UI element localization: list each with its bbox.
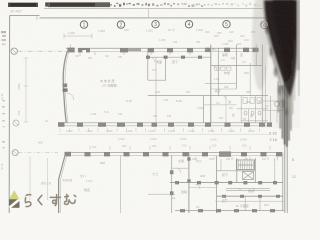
frame: top-left corner stub [36,15,38,20]
upper dim line [64,35,92,37]
top wall column blocks [67,48,258,53]
EV shaft with X [243,172,254,180]
upper plan curved left wall [63,52,67,123]
lower horizontal partition y170.8 [217,170,256,172]
interior vertical wall H [255,45,257,66]
logo text ra [25,194,76,206]
blob edge smudges [265,26,287,116]
lower faint shelf line [148,193,175,195]
blob fade streaks [278,40,294,146]
right wing horizontal 2 [262,110,285,112]
extra vertical x226 [225,96,227,123]
frame: left border vertical line [8,15,10,213]
room label marks upper plan [100,52,261,118]
blob right edge lighter column [296,0,300,70]
counter table lines [226,187,270,189]
lower dim ticks [90,146,270,150]
horizontal 1 blocks [175,181,277,184]
grid leader line row B [18,50,66,52]
door arc 2 [212,66,217,71]
extra partition y104.9 [204,104,237,106]
tick above corner [70,44,72,48]
left edge smudges [1,31,6,148]
lower interior vertical 2 [171,155,173,213]
logo house square [9,199,20,208]
wall a column blocks [146,56,202,59]
upper dim row texts [68,28,249,43]
left grid bubble row C [13,120,19,126]
lower interior vertical 4 [216,156,218,213]
corridor line [215,200,284,202]
frame: right border double line [284,40,286,213]
interior vertical wall M [255,96,257,123]
extension line x47 [47,158,49,200]
curved wall blocks [63,84,68,88]
interior vertical wall A [147,48,149,80]
left dim line lower [29,156,31,200]
lower right wall [282,152,284,211]
wall I parallel line [265,66,267,123]
interior horizontal wall f [236,108,268,110]
interior vertical wall G [249,63,251,96]
logo text ku [38,195,42,204]
logo text mu [65,195,69,198]
right wing horizontal 1 [262,100,285,102]
interior vertical wall B [155,57,157,123]
faint texts above bottom wall [90,111,123,116]
top speckle strip main part [48,2,110,7]
lower interior vertical 5 [220,159,222,171]
right wing partition vertical 1 [270,96,272,123]
door arc 5 [222,196,226,200]
interior horizontal wall d [205,83,236,85]
interior vertical wall J [203,96,205,123]
bottom edge wall line [175,210,284,212]
logo roof triangle [9,190,20,199]
lower interior horizontal 3 (with blocks) [217,195,284,197]
vertical 2 blocks [170,170,174,174]
tiny texts below lower top wall [192,158,267,161]
upper plan top wall lines [66,47,259,49]
upper dim extra texts [205,30,256,46]
lower interior vertical 3 [188,152,190,213]
blob inner dark core [269,0,295,84]
lower plan left wall [59,155,65,213]
grid bubble 6 ghost ring [260,21,267,28]
right wing partition vertical 2 [276,108,278,123]
grid bubble 1 [80,21,268,29]
bottom dim row of upper plan [66,129,255,133]
blob halo [252,0,268,90]
lower plan top wall lines [65,151,282,153]
door marks near curved wall [67,93,74,100]
below-wall tick marks [80,52,190,56]
interior vertical wall C [165,57,167,80]
blob grain texture [264,0,300,116]
partition y89 [211,88,237,90]
grid numbers [83,22,267,29]
between-plan dim texts [118,137,247,142]
interior vertical wall L [248,109,250,123]
stair treads hatch [238,161,253,169]
interior vertical wall F [235,45,237,90]
fold line under strip [44,8,263,10]
interior vertical wall I (right) [261,45,263,123]
blob core wedge [264,0,298,97]
lower interior vertical 6 (center) [236,158,238,183]
left margin tiny marks [0,83,21,170]
interior horizontal wall a [148,56,211,58]
top speckle strip gap mark [45,2,48,6]
bottom wall column blocks [58,122,272,127]
vertical 3 blocks [187,157,190,160]
extra text clusters upper mid [153,39,224,120]
faint interior marks below top wall [75,55,123,60]
upper plan bottom wall lines [58,122,271,124]
top strip fading scribbles [110,3,261,7]
door arc 4 [195,184,200,189]
interior horizontal wall c [148,79,166,81]
left grid bubble row B [11,48,17,54]
upper right text clusters [212,48,251,121]
door arc 6 [176,168,181,173]
interior vertical wall E [217,48,219,95]
interior horizontal wall b [211,65,262,67]
extra partition y120.8 [241,120,268,122]
interior vertical wall K [240,96,242,123]
stairwell box [237,160,255,170]
door arc 3 [222,96,226,100]
left grid bubble row D [12,150,18,156]
lower interior horizontal 2 faint [189,187,217,189]
top wall door notch [82,50,86,53]
lower top wall column blocks [65,151,283,156]
left dim line upper [25,58,27,122]
door arc 1 [150,57,155,62]
frame: main top horizontal line [40,17,269,19]
logo white stripe [9,200,19,208]
lower interior horizontal 1 (main with blocks) [170,182,283,184]
wc fixtures [244,111,261,115]
lower interior vertical 8 [274,158,276,181]
white gap between corner blocks [75,47,78,52]
bottom edge blocks [180,209,275,212]
furniture boxes row [215,67,232,70]
stair arrow line [238,164,253,166]
room label marks lower plan [80,158,270,209]
frame: top-left horizontal line [10,14,40,16]
below lower-top-wall stubs [196,157,278,161]
faint bubble right margin [275,102,280,107]
lower interior vertical 7 [254,158,256,183]
blob left edge mottling [263,0,290,99]
logo text su [50,196,60,198]
fold mark vertical [148,9,150,18]
lower entry partial wall [172,167,189,169]
toilet stalls [243,98,261,104]
top speckle strip left part [8,3,38,7]
lower interior vertical 1 [119,155,121,213]
faint pencil marks above logo [41,178,93,185]
interior horizontal wall e [148,95,268,97]
interior vertical wall D (main) [210,45,212,123]
